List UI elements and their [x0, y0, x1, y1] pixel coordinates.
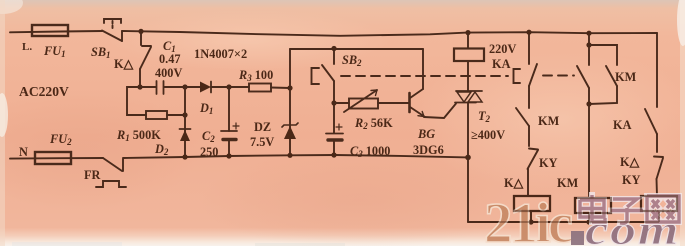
node junction C2 top	[226, 84, 231, 89]
fuse FU2	[35, 152, 71, 164]
svg-text:7.5V: 7.5V	[250, 135, 274, 149]
wire bottom rail right	[468, 221, 659, 223]
contact KM holding	[516, 108, 529, 146]
wire bottom rail N	[10, 157, 103, 160]
pushbutton SB2	[312, 49, 335, 85]
svg-text:KM: KM	[615, 70, 637, 84]
svg-text:KM: KM	[557, 176, 579, 190]
coil K-delta	[514, 196, 550, 211]
svg-text:FR: FR	[84, 168, 101, 182]
svg-text:N: N	[19, 145, 28, 159]
contact KA right column	[645, 33, 657, 152]
watermark CJK dianziwang ink	[580, 195, 679, 223]
svg-text:0.47: 0.47	[159, 52, 181, 66]
wire to KM coil	[588, 104, 590, 196]
node junction R1 to D2 column	[182, 112, 187, 117]
transistor BG	[410, 49, 457, 118]
svg-text:R2 56K: R2 56K	[354, 116, 393, 131]
svg-text:KA: KA	[613, 118, 632, 132]
wire bottom rail	[123, 155, 468, 158]
wire to R2	[334, 102, 349, 104]
node junction D2 bottom	[182, 154, 187, 159]
capacitor C2	[221, 87, 239, 156]
node junction C2 bottom	[226, 153, 231, 158]
svg-text:AC220V: AC220V	[19, 84, 69, 99]
contact KY	[528, 149, 539, 197]
capacitor C1	[140, 81, 185, 94]
wire	[271, 87, 290, 90]
svg-text:KY: KY	[539, 156, 558, 170]
fuse FU1	[32, 25, 68, 36]
node junction C3 bottom	[331, 152, 336, 157]
svg-text:R1 500K: R1 500K	[116, 128, 161, 143]
linkage bracket	[514, 69, 521, 83]
svg-text:L.: L.	[22, 41, 32, 53]
svg-text:K△: K△	[620, 155, 640, 169]
relay coil KA	[454, 33, 484, 91]
node junction at K-delta branch	[138, 29, 143, 34]
svg-text:3DG6: 3DG6	[413, 143, 444, 157]
node junction KA coil top	[465, 30, 470, 35]
svg-text:220V: 220V	[489, 42, 516, 56]
node junction	[182, 84, 187, 89]
contact KM aux branch	[589, 45, 617, 104]
wire vertical SB2/C3 branch	[333, 81, 335, 133]
watermark dot	[571, 231, 584, 245]
svg-text:250: 250	[200, 145, 218, 159]
coil KM	[575, 198, 611, 213]
svg-text:KA: KA	[492, 57, 511, 71]
wire L top rail left	[10, 31, 102, 32]
pushbutton SB1	[102, 19, 122, 41]
svg-text:K△: K△	[504, 176, 524, 190]
contact K-delta right	[654, 157, 663, 197]
node junction main vertical at rail	[465, 155, 471, 161]
node junction aux branch bottom	[586, 101, 591, 106]
wire sub-circuit top edge	[290, 48, 423, 50]
node junction below K-delta	[137, 84, 142, 89]
diode D2	[180, 129, 191, 141]
wire bottom rail ghost over watermark	[468, 196, 677, 222]
svg-text:DZ: DZ	[254, 120, 271, 134]
wire vertical D2 branch	[184, 87, 186, 157]
node junction KA contact top	[526, 30, 531, 35]
svg-text:K△: K△	[114, 57, 134, 71]
node junction SB2 top	[331, 46, 336, 51]
triac T2	[455, 91, 482, 222]
node junction K-delta coil at rail	[528, 219, 533, 224]
thermal contact FR	[96, 158, 126, 187]
node junction col2	[586, 31, 591, 36]
watermark 21ic	[484, 192, 572, 246]
coil KY	[641, 196, 677, 211]
contact K-delta	[140, 31, 151, 87]
linkage dashed line	[341, 75, 574, 78]
svg-text:KM: KM	[538, 114, 560, 128]
svg-text:BG: BG	[417, 127, 435, 141]
node junction KM coil at rail	[586, 219, 591, 224]
wire base	[378, 102, 409, 104]
watermark CJK dianziwang halo	[580, 195, 679, 223]
wire loop for R1	[127, 87, 146, 115]
diode D1	[185, 82, 249, 93]
node junction DZ top	[287, 85, 292, 90]
svg-text:C3 1000: C3 1000	[350, 144, 390, 159]
wire	[167, 114, 185, 116]
svg-text:KY: KY	[622, 173, 641, 187]
svg-text:≥400V: ≥400V	[471, 128, 505, 142]
svg-text:R3 100: R3 100	[238, 68, 273, 83]
svg-text:1N4007×2: 1N4007×2	[194, 47, 247, 61]
capacitor C3	[326, 124, 343, 155]
wire top rail	[122, 31, 657, 36]
potentiometer R2	[344, 90, 378, 112]
node junction aux branch top	[586, 42, 591, 47]
contact KA (relay)	[529, 32, 537, 108]
resistor R3	[249, 84, 271, 92]
node junction DZ bottom	[287, 153, 292, 158]
resistor R1	[146, 111, 167, 119]
contact KA2	[577, 33, 589, 104]
svg-text:400V: 400V	[155, 66, 182, 80]
svg-text:21ic: 21ic	[484, 192, 572, 246]
node junction R2 branch	[331, 100, 336, 105]
zener DZ	[282, 49, 298, 156]
